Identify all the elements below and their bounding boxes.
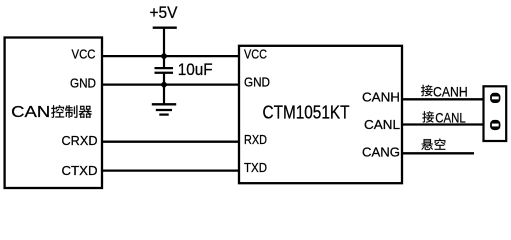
svg-text:GND: GND [244, 75, 270, 90]
svg-text:CANG: CANG [362, 144, 400, 159]
svg-text:VCC: VCC [72, 47, 96, 62]
svg-text:CTM1051KT: CTM1051KT [263, 103, 350, 123]
svg-text:GND: GND [70, 75, 96, 90]
svg-text:TXD: TXD [244, 160, 267, 175]
svg-text:CAN: CAN [11, 104, 50, 121]
svg-text:VCC: VCC [244, 47, 267, 62]
svg-text:10uF: 10uF [178, 60, 213, 79]
svg-text:CANL: CANL [364, 117, 400, 132]
svg-text:CANH: CANH [433, 83, 468, 99]
svg-text:RXD: RXD [244, 132, 267, 147]
svg-text:CANH: CANH [362, 90, 400, 105]
svg-text:CRXD: CRXD [62, 133, 98, 148]
svg-text:CTXD: CTXD [62, 163, 98, 178]
svg-text:+5V: +5V [150, 3, 179, 22]
svg-text:CANL: CANL [435, 110, 466, 126]
